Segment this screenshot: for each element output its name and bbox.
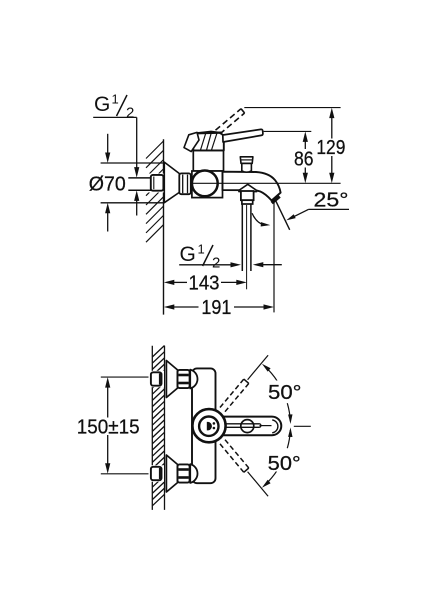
svg-text:G: G xyxy=(180,243,196,266)
dimension 191 xyxy=(164,304,175,309)
valve body block (side) xyxy=(192,171,223,198)
spout (side) xyxy=(223,172,281,201)
svg-text:50°: 50° xyxy=(268,453,301,475)
diverter knob flare xyxy=(240,157,253,164)
svg-text:191: 191 xyxy=(201,297,231,319)
extension line Ø70 bottom xyxy=(101,202,164,204)
shower outlet nut upper xyxy=(241,191,254,200)
lever screw boss xyxy=(241,420,254,433)
25° underline xyxy=(308,208,349,210)
hub outer circle xyxy=(192,409,225,442)
top union assembly xyxy=(149,371,165,387)
50° arc top (lower part) xyxy=(287,403,290,421)
25° leader arrow xyxy=(292,209,309,217)
shower pipe right xyxy=(250,204,252,271)
50° arc bottom (lower part) xyxy=(265,470,278,485)
wall line left (front) xyxy=(151,346,153,510)
arrow G1/2 up xyxy=(136,200,138,216)
shower pipe centerline / 143 ext xyxy=(246,205,248,289)
inlet pipe bottom xyxy=(128,189,151,191)
hub inner circle xyxy=(199,417,218,436)
dimension 129 xyxy=(329,108,334,119)
centerline ext (front) xyxy=(294,425,311,427)
cartridge housing (side) xyxy=(193,150,223,171)
union nut (front) xyxy=(178,464,190,482)
dimension 86 xyxy=(303,131,308,142)
svg-text:1: 1 xyxy=(198,242,205,257)
dimension 150±15 xyxy=(105,377,110,388)
25° arc xyxy=(252,213,264,225)
svg-text:25°: 25° xyxy=(314,189,349,211)
lever inner end arc xyxy=(272,420,278,433)
wall (side view) hatching xyxy=(146,141,164,159)
backnut xyxy=(151,467,162,480)
wall nut (square) xyxy=(151,175,164,191)
leader G1/2 top underline xyxy=(93,116,137,118)
hub mark xyxy=(207,422,212,431)
body boss arc bottom xyxy=(190,464,197,483)
arrow Ø70 bottom xyxy=(107,212,109,232)
wall line right (front) xyxy=(164,346,166,510)
svg-text:2: 2 xyxy=(126,105,134,122)
bottom union assembly xyxy=(149,465,165,481)
G1/2 opposite arrow xyxy=(253,262,263,267)
shower pipe left xyxy=(241,204,243,271)
G1/2 underline leader xyxy=(179,264,232,266)
G1/2 arrow right xyxy=(231,262,242,267)
body boss arc top xyxy=(190,370,197,389)
svg-text:Ø70: Ø70 xyxy=(89,174,126,196)
ext line bottom union xyxy=(101,473,151,475)
spout aerator face xyxy=(272,196,280,203)
backnut xyxy=(151,372,162,385)
wall (front view) hatching xyxy=(152,346,164,358)
ext line top union xyxy=(101,376,151,378)
50° arc top (upper part) xyxy=(265,366,278,381)
lever position -50° (dashed) xyxy=(220,444,244,472)
25° outlet direction line xyxy=(276,201,290,230)
extension line Ø70 top xyxy=(101,162,164,164)
inlet pipe top xyxy=(128,177,151,179)
union nut (front) xyxy=(178,370,190,388)
lever dome (side) xyxy=(192,132,224,151)
valve body circle xyxy=(192,171,218,197)
escutcheon cone (front) xyxy=(166,361,177,398)
axis extension line y=183 xyxy=(192,182,341,184)
escutcheon cone (side) xyxy=(164,162,179,203)
wall line (side view) xyxy=(163,139,165,314)
svg-text:2: 2 xyxy=(212,255,220,272)
lever position +50° (dashed) xyxy=(225,383,249,411)
shower outlet nut lower xyxy=(242,200,253,204)
svg-text:1: 1 xyxy=(112,92,119,107)
svg-text:86: 86 xyxy=(294,149,314,171)
leader G1/2 vertical xyxy=(136,117,138,167)
dimension 143 xyxy=(164,280,175,285)
50° arc bottom (upper part) xyxy=(287,430,290,448)
diverter knob body xyxy=(242,163,252,172)
svg-text:150±15: 150±15 xyxy=(77,416,140,438)
union nut (side) xyxy=(179,173,191,194)
svg-text:50°: 50° xyxy=(268,382,302,404)
svg-text:143: 143 xyxy=(189,273,220,295)
arc arrows xyxy=(262,364,271,372)
mixer body (front) xyxy=(192,368,216,483)
lever front wedge xyxy=(184,132,199,151)
diverter hood xyxy=(239,184,257,191)
arrow G1/2 down xyxy=(134,167,139,178)
svg-text:G: G xyxy=(94,93,110,116)
lever raised position (dashed) xyxy=(216,109,242,131)
lever handle (front) xyxy=(210,417,281,436)
ext line spout tip x=274 xyxy=(273,203,275,313)
arrow Ø70 top xyxy=(107,134,109,154)
escutcheon cone (front) xyxy=(166,455,177,492)
ext line 86 top (lever) xyxy=(264,130,312,132)
ext line 129 top (raised lever) xyxy=(244,107,340,109)
svg-text:129: 129 xyxy=(316,137,345,159)
lever handle (side, horizontal) xyxy=(223,129,263,142)
